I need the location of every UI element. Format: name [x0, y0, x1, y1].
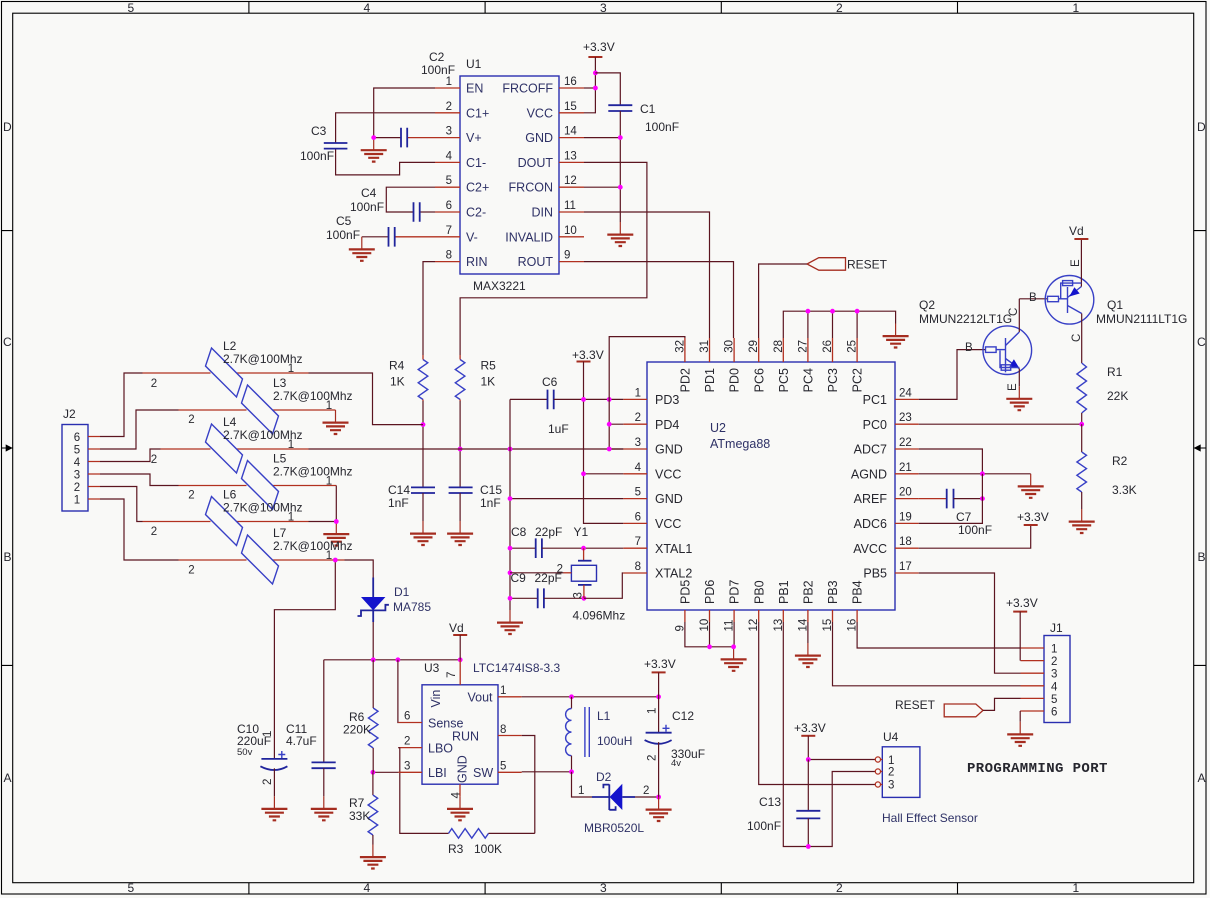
svg-text:1: 1	[326, 476, 332, 488]
svg-text:ROUT: ROUT	[518, 255, 554, 269]
svg-text:6: 6	[446, 200, 452, 212]
node D1/R6 on rail	[371, 657, 376, 662]
wire RIN pin8 down to R4	[423, 262, 435, 355]
svg-text:D: D	[3, 120, 12, 134]
svg-text:C1: C1	[640, 102, 656, 116]
svg-text:4: 4	[446, 150, 453, 162]
node C13 bottom	[806, 844, 811, 849]
ground at C2/EN junction	[361, 138, 387, 162]
node PD6	[707, 644, 712, 649]
wire EN pin1 to gnd junction	[374, 88, 435, 138]
svg-text:D2: D2	[596, 770, 612, 784]
capacitor C8 22pF	[510, 525, 584, 558]
svg-text:1: 1	[326, 550, 332, 562]
node PD7	[731, 644, 736, 649]
svg-text:100nF: 100nF	[326, 228, 360, 242]
wire C1+ pin2 loop to C1- pin4 through C3	[336, 113, 435, 175]
capacitor C14 1nF	[388, 425, 435, 521]
svg-text:22: 22	[899, 437, 912, 449]
svg-text:B: B	[1198, 550, 1206, 564]
wire J2.3 to L5	[100, 474, 179, 486]
wire DOUT pin13 to R5	[460, 162, 647, 355]
svg-text:C2-: C2-	[466, 206, 486, 220]
wire C2+ pin5 loop to C2- pin6 through C4	[386, 187, 435, 212]
svg-text:2: 2	[188, 490, 194, 502]
crystal Y1 4.096Mhz	[510, 525, 625, 623]
op-amp U2 ATmega88 box	[647, 362, 895, 610]
svg-text:XTAL1: XTAL1	[655, 542, 692, 556]
svg-text:2: 2	[188, 414, 194, 426]
svg-text:VCC: VCC	[655, 467, 681, 481]
svg-text:V-: V-	[466, 230, 478, 244]
svg-text:32: 32	[674, 340, 686, 353]
wire J2.4 to L4	[100, 449, 161, 462]
wire GND pin5	[510, 498, 623, 500]
top rail pins 25-28 to ground	[783, 311, 895, 338]
wire LBI pin3	[398, 771, 422, 773]
node GND3 rail x510	[508, 447, 513, 452]
svg-text:R3: R3	[448, 842, 464, 856]
svg-text:B: B	[4, 550, 12, 564]
node EN/C2 junction	[371, 135, 376, 140]
svg-text:FRCON: FRCON	[509, 181, 553, 195]
wire ROUT pin9 to PD0	[584, 262, 734, 338]
svg-text:PC5: PC5	[777, 368, 791, 392]
svg-text:Vin: Vin	[429, 690, 443, 708]
node GND5	[508, 496, 513, 501]
svg-text:8: 8	[635, 561, 641, 573]
svg-text:22pF: 22pF	[535, 525, 562, 539]
svg-text:J1: J1	[1050, 621, 1063, 635]
node PD4	[607, 422, 612, 427]
svg-text:MMUN2111LT1G: MMUN2111LT1G	[1096, 312, 1187, 326]
svg-text:2: 2	[1051, 656, 1057, 668]
node +3.3V/VCC4	[581, 471, 586, 476]
svg-text:A: A	[4, 771, 12, 785]
svg-text:DIN: DIN	[531, 206, 553, 220]
svg-text:1: 1	[888, 755, 894, 767]
svg-text:3: 3	[572, 592, 584, 598]
svg-text:+3.3V: +3.3V	[572, 348, 604, 362]
node Vd/pin7	[458, 657, 463, 662]
svg-text:15: 15	[564, 101, 577, 113]
svg-text:2: 2	[647, 755, 659, 761]
svg-text:20: 20	[899, 487, 912, 499]
svg-text:4: 4	[635, 462, 642, 474]
wire AGND pin21 to ground	[919, 473, 1031, 475]
+3.3V power at U1	[583, 40, 615, 113]
svg-text:R2: R2	[1112, 454, 1128, 468]
svg-text:B: B	[1029, 292, 1037, 304]
svg-text:C7: C7	[956, 510, 972, 524]
wire PB5 pin17 to J1 pin3	[919, 573, 1021, 673]
inductor L7 2.7K@100Mhz	[179, 526, 353, 584]
svg-text:PB4: PB4	[851, 580, 865, 604]
wire Sense pin6	[397, 660, 399, 723]
svg-text:2: 2	[151, 526, 157, 538]
svg-text:PD3: PD3	[655, 393, 679, 407]
svg-text:RUN: RUN	[452, 730, 479, 744]
svg-text:U3: U3	[424, 661, 440, 675]
svg-text:1nF: 1nF	[480, 496, 501, 510]
transistor Q1 MMUN2111LT1G	[1029, 239, 1187, 363]
node R1/R2	[1079, 422, 1084, 427]
wire J2.2 to L6	[100, 487, 143, 522]
capacitor C15 1nF	[449, 449, 503, 521]
svg-text:C12: C12	[672, 709, 694, 723]
svg-text:ATmega88: ATmega88	[710, 437, 770, 451]
wire XTAL2	[584, 573, 623, 598]
wire SW row	[522, 771, 572, 773]
svg-text:2: 2	[635, 412, 641, 424]
svg-text:11: 11	[724, 620, 736, 632]
svg-text:L2: L2	[223, 339, 237, 353]
node pin1 rail	[607, 397, 612, 402]
svg-text:V+: V+	[466, 131, 482, 145]
svg-text:2: 2	[643, 785, 649, 797]
svg-text:4.096Mhz: 4.096Mhz	[573, 609, 626, 623]
diode D1 MA785	[358, 578, 432, 660]
ground under C5	[349, 237, 375, 261]
svg-text:2.7K@100Mhz: 2.7K@100Mhz	[273, 539, 353, 553]
wire Vout row	[522, 696, 659, 698]
wire GND pin14 / FRCON pin12 to ground	[584, 138, 620, 222]
svg-text:1: 1	[635, 387, 641, 399]
svg-text:C8: C8	[511, 525, 527, 539]
svg-text:1: 1	[446, 76, 452, 88]
svg-text:GND: GND	[456, 755, 470, 783]
svg-text:3: 3	[635, 437, 641, 449]
wire PC0 pin23 to R1/R2 junction	[919, 423, 1082, 425]
svg-text:VCC: VCC	[527, 106, 553, 120]
resistor R4 1K	[389, 355, 428, 425]
svg-text:U4: U4	[883, 730, 899, 744]
svg-text:22K: 22K	[1107, 389, 1128, 403]
svg-text:C2: C2	[429, 50, 445, 64]
node R5/C15/L4row junction	[458, 447, 463, 452]
svg-text:PB2: PB2	[802, 580, 816, 604]
svg-text:4: 4	[364, 1, 371, 15]
svg-text:EN: EN	[466, 82, 483, 96]
capacitor C2	[374, 50, 455, 147]
svg-text:PB1: PB1	[777, 580, 791, 604]
svg-text:R4: R4	[389, 359, 405, 373]
svg-text:+3.3V: +3.3V	[794, 721, 826, 735]
svg-text:Vout: Vout	[468, 691, 494, 705]
resistor R2 3.3K	[1077, 424, 1137, 509]
node R6/R7/LBI	[371, 770, 376, 775]
node C12 top	[656, 694, 661, 699]
svg-text:INVALID: INVALID	[505, 230, 553, 244]
node C6/+3.3V	[581, 397, 586, 402]
ground under C1	[607, 222, 633, 246]
capacitor C7 100nF	[919, 489, 992, 537]
svg-text:1: 1	[326, 400, 332, 412]
resistor R7 33K	[349, 772, 378, 844]
svg-text:3: 3	[1051, 669, 1057, 681]
svg-text:100nF: 100nF	[958, 523, 992, 537]
svg-text:16: 16	[564, 76, 577, 88]
svg-text:26: 26	[822, 340, 834, 353]
svg-text:25: 25	[847, 340, 859, 353]
svg-text:+3.3V: +3.3V	[1017, 510, 1049, 524]
svg-text:100uH: 100uH	[597, 734, 632, 748]
svg-text:28: 28	[773, 340, 785, 353]
svg-text:1: 1	[74, 495, 80, 507]
resistor R3 100K	[448, 736, 535, 857]
svg-text:30: 30	[724, 340, 736, 353]
RESET tag bottom to J1 pin5	[895, 698, 1021, 717]
svg-text:1: 1	[1073, 1, 1080, 15]
inductor L5 2.7K@100Mhz	[179, 452, 353, 510]
svg-text:C5: C5	[336, 214, 352, 228]
svg-text:29: 29	[748, 340, 760, 353]
svg-text:4: 4	[1051, 681, 1058, 693]
+3.3V above C13	[794, 721, 826, 760]
svg-text:U2: U2	[710, 421, 726, 435]
svg-text:C15: C15	[480, 483, 502, 497]
svg-text:1: 1	[288, 363, 294, 375]
wire L2 out to R4 junction	[309, 373, 424, 425]
svg-text:AREF: AREF	[854, 492, 888, 506]
svg-text:J2: J2	[63, 407, 76, 421]
svg-text:5: 5	[74, 445, 80, 457]
U1 right pin stubs 16-9	[559, 76, 584, 262]
svg-text:14: 14	[564, 126, 577, 138]
svg-text:100K: 100K	[474, 842, 502, 856]
wire J2.1 to L7	[100, 499, 179, 560]
capacitor C13 100nF	[747, 760, 820, 847]
node C8 rail	[508, 546, 513, 551]
wire LBO pin2 to R3	[398, 747, 422, 749]
svg-text:7: 7	[446, 225, 452, 237]
inductor L2 2.7K@100Mhz	[143, 339, 309, 397]
svg-text:XTAL2: XTAL2	[655, 567, 692, 581]
node crystal bottom	[582, 596, 587, 601]
svg-text:PC3: PC3	[826, 368, 840, 392]
U3 pin4 stub and ground	[459, 784, 461, 796]
resistor R6 220K	[343, 660, 378, 773]
svg-text:6: 6	[635, 511, 641, 523]
svg-text:5: 5	[128, 1, 135, 15]
wire U4 pin1 row	[808, 759, 875, 761]
svg-text:7: 7	[635, 536, 641, 548]
Vd power at Q1	[1069, 224, 1088, 239]
svg-text:Y1: Y1	[574, 525, 589, 539]
svg-text:18: 18	[899, 536, 912, 548]
svg-text:3: 3	[600, 1, 607, 15]
node C9 rail	[508, 596, 513, 601]
wire J1 pin6 to ground	[1019, 711, 1021, 722]
svg-text:2: 2	[262, 779, 274, 785]
svg-text:Sense: Sense	[428, 717, 463, 731]
wire ADC6 pin19	[919, 474, 983, 524]
node L7 branch	[333, 558, 338, 563]
U1 left pin stubs 1-8	[435, 76, 460, 262]
svg-text:1: 1	[288, 439, 294, 451]
svg-text:1nF: 1nF	[388, 496, 409, 510]
svg-text:PD7: PD7	[728, 580, 742, 604]
svg-text:A: A	[1198, 771, 1206, 785]
svg-text:C14: C14	[388, 483, 410, 497]
svg-text:2: 2	[188, 565, 194, 577]
capacitor C9 22pF	[510, 571, 584, 608]
svg-text:C: C	[1197, 335, 1206, 349]
wire L7 out to D1 and C10 branch	[345, 560, 374, 578]
node L1 top	[569, 694, 574, 699]
node PC4	[806, 309, 811, 314]
svg-text:LBO: LBO	[428, 742, 453, 756]
svg-text:3: 3	[404, 760, 410, 772]
capacitor C6 1uF	[510, 375, 623, 436]
svg-text:12: 12	[748, 619, 760, 632]
resistor R5 1K	[455, 355, 496, 449]
svg-text:MMUN2212LT1G: MMUN2212LT1G	[919, 312, 1012, 326]
svg-text:C: C	[3, 335, 12, 349]
svg-text:4v: 4v	[671, 758, 681, 769]
svg-text:2: 2	[836, 1, 843, 15]
svg-text:PC2: PC2	[851, 368, 865, 392]
wire XTAL1 row	[584, 547, 624, 549]
svg-text:5: 5	[446, 175, 452, 187]
svg-text:C1-: C1-	[466, 156, 486, 170]
+3.3V rail at U2 left	[572, 348, 623, 523]
svg-text:6: 6	[404, 711, 410, 723]
svg-text:31: 31	[699, 340, 711, 353]
ground under Q2	[1006, 386, 1032, 410]
Vin rail	[324, 660, 460, 763]
wire DIN pin11 to PD1	[584, 212, 710, 338]
svg-text:PC4: PC4	[802, 368, 816, 392]
svg-text:RESET: RESET	[847, 258, 888, 272]
svg-text:PD4: PD4	[655, 418, 679, 432]
svg-text:GND: GND	[525, 131, 553, 145]
svg-text:13: 13	[773, 619, 785, 632]
svg-text:3: 3	[888, 780, 894, 792]
svg-text:C4: C4	[361, 186, 377, 200]
svg-text:1: 1	[262, 731, 274, 737]
wire PC1 pin24 to Q2 base	[919, 350, 986, 400]
inductor L6 2.7K@100Mhz	[143, 488, 309, 546]
svg-text:1: 1	[647, 708, 659, 714]
svg-text:2: 2	[888, 767, 894, 779]
svg-text:1K: 1K	[481, 375, 496, 389]
svg-text:PD0: PD0	[728, 368, 742, 392]
svg-text:100nF: 100nF	[421, 63, 455, 77]
svg-text:2.7K@100Mhz: 2.7K@100Mhz	[273, 389, 353, 403]
node R4/C14/L2 junction	[421, 422, 426, 427]
svg-text:2.7K@100Mhz: 2.7K@100Mhz	[273, 465, 353, 479]
U3 pin7 stub	[459, 660, 461, 685]
part U4 Hall Effect Sensor	[875, 730, 978, 825]
svg-text:L4: L4	[223, 415, 237, 429]
svg-text:L7: L7	[273, 526, 287, 540]
node C13 top	[806, 757, 811, 762]
svg-text:C13: C13	[759, 795, 781, 809]
resistor R1 22K	[1077, 363, 1128, 424]
svg-text:12: 12	[564, 175, 577, 187]
wire PD2 net rail x609	[609, 337, 685, 449]
svg-text:23: 23	[899, 412, 912, 424]
svg-text:Vd: Vd	[449, 621, 464, 635]
svg-text:5: 5	[1051, 694, 1057, 706]
svg-text:Q1: Q1	[1107, 298, 1123, 312]
svg-text:U1: U1	[466, 57, 482, 71]
svg-text:GND: GND	[655, 492, 683, 506]
svg-text:50v: 50v	[237, 747, 253, 758]
svg-text:Hall Effect Sensor: Hall Effect Sensor	[882, 811, 978, 825]
node crystal pin2 rail	[508, 570, 513, 575]
svg-text:PB5: PB5	[863, 567, 887, 581]
svg-text:4: 4	[364, 881, 371, 895]
svg-text:C: C	[1071, 334, 1083, 342]
svg-text:2: 2	[151, 454, 157, 466]
+3.3V at Vout	[644, 657, 676, 697]
op-amp U1 MAX3221 box	[460, 57, 559, 293]
capacitor C12 330uF 4v	[645, 697, 705, 797]
svg-text:100nF: 100nF	[747, 819, 781, 833]
node D2/C12 bottom	[656, 795, 661, 800]
svg-text:1: 1	[500, 685, 506, 697]
svg-text:E: E	[1007, 383, 1019, 391]
svg-text:PROGRAMMING PORT: PROGRAMMING PORT	[967, 761, 1108, 777]
svg-text:33K: 33K	[349, 809, 370, 823]
svg-text:MA785: MA785	[393, 600, 431, 614]
svg-text:1uF: 1uF	[548, 422, 569, 436]
wire PB4 pin16 to J1 pin1	[857, 635, 1020, 649]
wire PB1 pin13 to U4 pin2	[783, 635, 875, 847]
svg-text:R5: R5	[481, 359, 497, 373]
U2 left stubs 1-8	[623, 387, 647, 573]
Vd power above U3	[449, 621, 467, 660]
svg-text:B: B	[965, 342, 973, 354]
svg-text:L5: L5	[273, 452, 287, 466]
svg-text:SW: SW	[473, 766, 493, 780]
svg-text:100nF: 100nF	[300, 149, 334, 163]
inductor L4 2.7K@100Mhz	[151, 415, 309, 473]
svg-text:21: 21	[899, 462, 912, 474]
svg-text:1: 1	[1051, 644, 1057, 656]
svg-text:2: 2	[557, 563, 563, 575]
svg-text:7: 7	[446, 672, 458, 678]
svg-text:2: 2	[151, 378, 157, 390]
svg-text:4.7uF: 4.7uF	[286, 734, 317, 748]
svg-text:AGND: AGND	[851, 467, 887, 481]
U2 right stubs 24-17	[895, 387, 919, 573]
U2 top stubs 32-25	[674, 338, 858, 362]
wire PB3 pin15 to J1 pin4	[833, 635, 1021, 686]
svg-text:2: 2	[446, 101, 452, 113]
svg-text:10: 10	[699, 619, 711, 632]
ground under PB2	[807, 635, 809, 644]
capacitor C5 on V- pin7	[326, 214, 435, 247]
svg-text:D: D	[1197, 120, 1206, 134]
svg-text:R7: R7	[349, 796, 365, 810]
svg-text:11: 11	[564, 200, 576, 212]
capacitor C11 4.7uF	[286, 722, 336, 796]
wire L6 out to ground node	[309, 521, 337, 523]
connector J1	[1021, 621, 1071, 723]
svg-text:1: 1	[1073, 881, 1080, 895]
svg-text:D1: D1	[394, 585, 410, 599]
svg-text:3: 3	[600, 881, 607, 895]
svg-text:AVCC: AVCC	[853, 542, 887, 556]
svg-text:+3.3V: +3.3V	[583, 40, 615, 54]
svg-text:ADC6: ADC6	[854, 517, 887, 531]
svg-text:R1: R1	[1107, 365, 1123, 379]
node ADC7/AGND	[980, 471, 985, 476]
svg-text:4: 4	[451, 792, 463, 799]
